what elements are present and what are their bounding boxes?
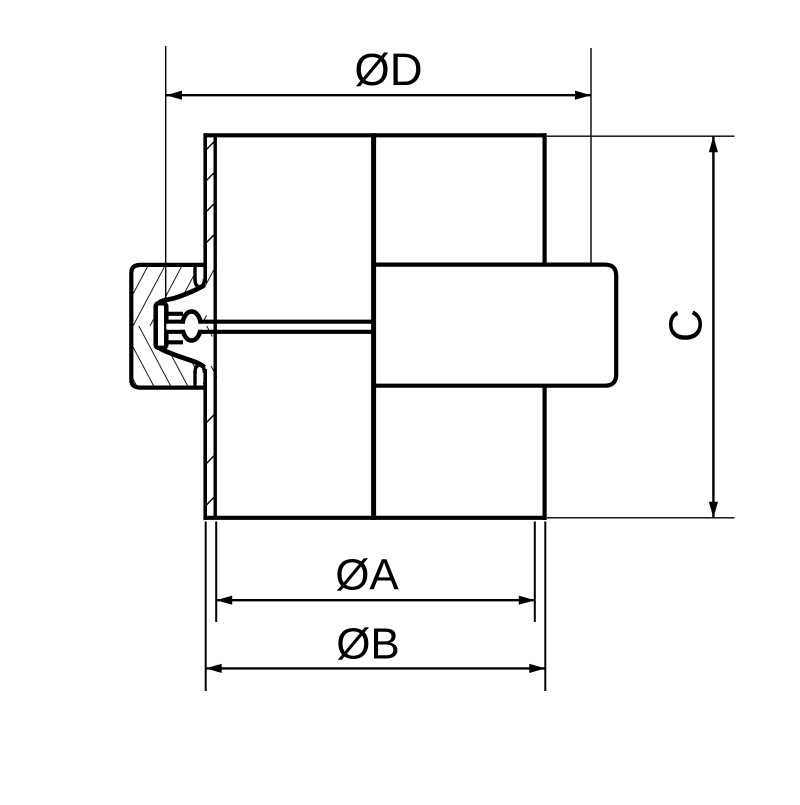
white pocket above lower lip — [158, 337, 217, 367]
dimension OA left arrowhead — [216, 596, 232, 605]
dimension OB line — [206, 667, 546, 669]
white pocket pin cavity — [156, 314, 204, 343]
dimension OA right arrowhead — [519, 596, 535, 605]
dimension C extension top — [547, 135, 735, 137]
dimension OA extension left — [215, 522, 217, 623]
svg-text:C: C — [660, 309, 712, 342]
dimension C bottom arrowhead — [709, 502, 718, 518]
hatched flange section fill upper — [132, 263, 218, 326]
dimension C top arrowhead — [709, 136, 718, 152]
pin stem lower line — [166, 330, 376, 334]
dimension OA extension right — [534, 522, 536, 623]
white pocket lower slot — [196, 367, 203, 388]
pin stem upper line — [166, 320, 376, 324]
lower pocket line — [166, 340, 183, 344]
body right edge upper — [542, 133, 546, 266]
svg-text:ØA: ØA — [335, 551, 399, 600]
wall hatch ticks — [206, 141, 216, 506]
dimension OB left arrowhead — [206, 664, 222, 673]
svg-text:ØB: ØB — [336, 620, 400, 669]
hatched flange section fill lower — [132, 326, 218, 390]
dimension OB extension right — [544, 522, 546, 692]
stem slot gap across pin — [166, 324, 205, 330]
body top edge — [204, 133, 547, 137]
left wall outer line upper — [203, 133, 207, 283]
hub block rounded outline — [374, 265, 617, 386]
dimension OB extension left — [205, 522, 207, 692]
left wall outer line lower — [203, 369, 207, 520]
left wall inner line — [213, 137, 216, 516]
center partition line — [371, 133, 376, 520]
dimension OD line — [166, 94, 591, 96]
lower lip S-curve — [160, 349, 205, 368]
dimension OD extension right — [590, 48, 592, 263]
pin head outline — [156, 303, 167, 348]
dimension C line — [712, 136, 714, 518]
flange outer outline — [131, 265, 205, 388]
dimension OD right arrowhead — [575, 91, 591, 100]
pin bulge ring — [182, 311, 200, 340]
white pocket under upper lip — [158, 286, 217, 316]
upper groove left wall — [193, 264, 196, 281]
body right edge lower — [542, 385, 546, 520]
dimension OA line — [216, 599, 535, 601]
lower groove top — [195, 365, 204, 373]
upper lip S-curve — [158, 285, 205, 347]
lower groove left wall — [193, 372, 196, 389]
white pocket upper slot — [196, 264, 203, 286]
dimension OB right arrowhead — [529, 664, 545, 673]
svg-text:ØD: ØD — [354, 44, 422, 95]
dimension OD extension left — [165, 46, 167, 301]
dimension OD left arrowhead — [166, 91, 182, 100]
upper pocket line — [166, 312, 183, 316]
upper groove bottom — [195, 279, 204, 287]
body bottom edge — [204, 516, 547, 520]
dimension C extension bottom — [547, 517, 735, 519]
